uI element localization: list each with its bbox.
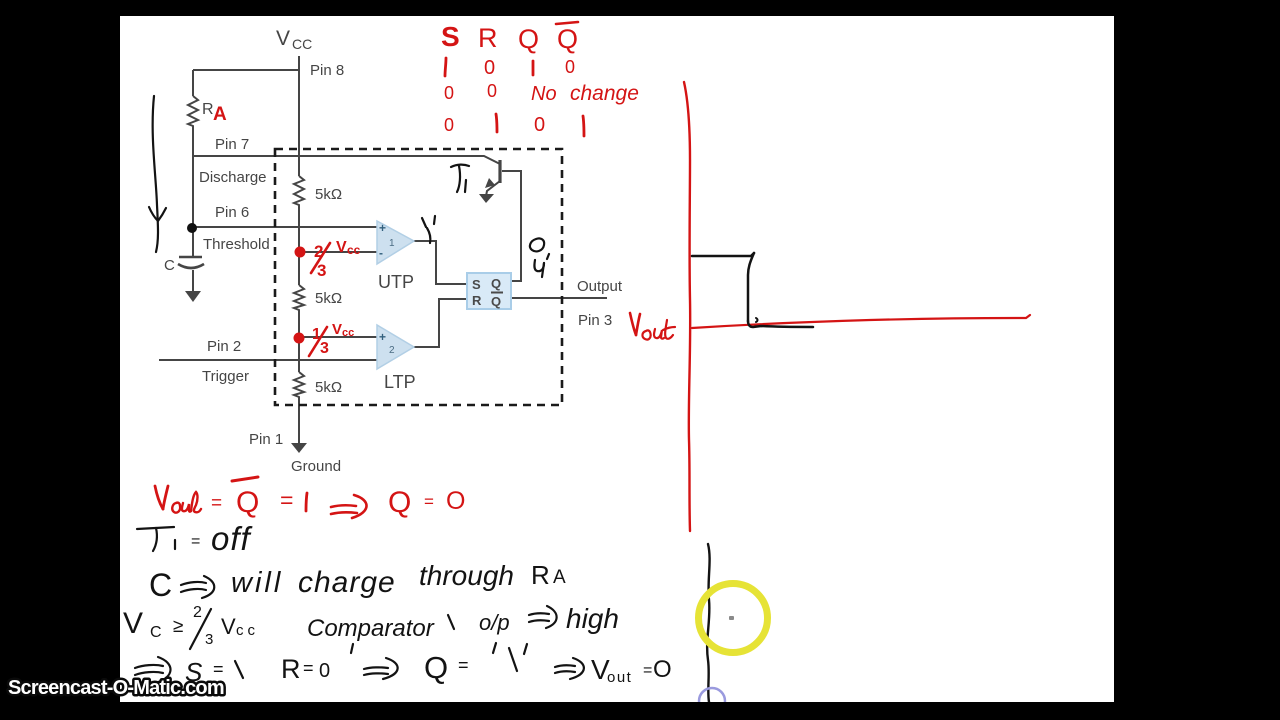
svg-text:Q: Q [491,294,501,309]
svg-text:high: high [566,603,619,634]
svg-text:Output: Output [577,278,623,295]
svg-text:=: = [303,658,314,678]
svg-text:Trigger: Trigger [202,368,249,385]
svg-text:0: 0 [444,115,454,135]
svg-text:Q: Q [388,486,411,519]
svg-text:cc: cc [347,243,361,257]
svg-text:=: = [213,659,224,679]
svg-text:S: S [441,21,460,52]
svg-text:0: 0 [444,83,454,103]
svg-text:Ground: Ground [291,458,341,475]
svg-text:R: R [281,654,301,684]
svg-text:-: - [379,246,383,260]
svg-text:Q: Q [424,650,448,685]
svg-text:3: 3 [317,261,326,280]
svg-text:cc: cc [236,622,259,639]
svg-text:0: 0 [534,114,545,136]
svg-text:0: 0 [565,57,575,77]
svg-text:5kΩ: 5kΩ [315,290,342,307]
svg-text:+: + [379,330,386,344]
svg-text:V: V [123,607,143,640]
svg-text:1: 1 [389,238,395,249]
svg-text:UTP: UTP [378,272,414,292]
svg-text:Pin 6: Pin 6 [215,204,249,221]
svg-text:2: 2 [193,604,202,621]
svg-text:Threshold: Threshold [203,236,270,253]
svg-text:0: 0 [487,81,497,101]
svg-text:=: = [280,487,293,513]
svg-text:Pin 3: Pin 3 [578,312,612,329]
svg-text:3: 3 [205,631,213,648]
svg-text:=: = [458,655,469,675]
svg-text:C: C [149,567,172,603]
svg-text:A: A [213,104,227,125]
svg-text:change: change [570,82,639,105]
svg-text:Pin 1: Pin 1 [249,431,283,448]
svg-text:R: R [202,101,214,118]
svg-text:V: V [332,321,342,338]
svg-text:Pin 2: Pin 2 [207,338,241,355]
svg-text:=: = [211,493,222,514]
svg-text:C: C [150,624,162,641]
svg-text:V: V [336,239,347,256]
svg-text:=: = [643,662,652,679]
svg-text:o/p: o/p [479,610,510,635]
svg-text:5kΩ: 5kΩ [315,379,342,396]
svg-text:R: R [472,293,482,308]
svg-text:LTP: LTP [384,372,416,392]
svg-text:=: = [424,492,434,511]
svg-text:through: through [419,560,514,591]
svg-text:Pin 7: Pin 7 [215,136,249,153]
svg-text:Pin 8: Pin 8 [310,62,344,79]
svg-text:0: 0 [319,660,330,682]
svg-text:O: O [653,656,672,683]
svg-text:2: 2 [314,242,323,261]
svg-text:V: V [276,27,290,50]
svg-text:=: = [191,533,200,550]
svg-text:No: No [531,83,557,105]
svg-text:O: O [446,487,465,515]
svg-text:Q: Q [491,276,501,291]
svg-text:Q: Q [557,24,578,54]
svg-text:off: off [211,520,254,557]
svg-text:cc: cc [342,327,354,339]
svg-text:CC: CC [292,36,312,52]
svg-text:V: V [221,614,236,639]
svg-text:Screencast-O-Matic.com: Screencast-O-Matic.com [8,677,224,699]
svg-text:R: R [478,23,498,53]
svg-text:will: will [231,567,283,599]
svg-text:charge: charge [298,566,396,599]
svg-text:+: + [379,221,386,235]
svg-text:2: 2 [389,345,395,356]
svg-text:Q: Q [518,24,539,54]
svg-text:C: C [164,257,175,274]
svg-text:A: A [553,567,566,588]
svg-text:5kΩ: 5kΩ [315,186,342,203]
svg-text:Discharge: Discharge [199,169,267,186]
svg-text:Q: Q [236,486,259,519]
svg-text:≥: ≥ [173,616,183,637]
svg-text:out: out [607,669,632,686]
svg-text:S: S [472,277,481,292]
svg-text:3: 3 [320,340,329,357]
svg-text:0: 0 [484,57,495,79]
svg-text:R: R [531,560,550,590]
svg-text:Comparator: Comparator [307,615,435,642]
